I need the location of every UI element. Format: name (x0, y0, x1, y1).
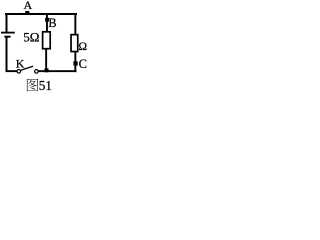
wire right vertical upper (74, 14, 76, 34)
node B dot (45, 18, 49, 22)
battery cell short plate (negative) (4, 36, 10, 38)
switch K right terminal circle (35, 70, 39, 74)
node C dot (73, 61, 77, 65)
svg-text:B: B (48, 16, 56, 30)
switch K left terminal circle (17, 70, 21, 74)
switch K blade (21, 66, 33, 70)
svg-text:A: A (24, 0, 33, 12)
svg-text:Ω: Ω (79, 41, 88, 53)
wire middle vertical lower (45, 49, 47, 70)
svg-text:51: 51 (39, 78, 52, 92)
svg-text:5Ω: 5Ω (23, 29, 39, 44)
resistor box middle (43, 32, 51, 49)
wire middle vertical upper (46, 14, 48, 32)
wire right vertical lower (74, 52, 76, 72)
battery cell long plate (positive) (1, 32, 15, 34)
wire bottom left segment (6, 70, 17, 72)
node A dot (25, 11, 29, 15)
wire left vertical lower (6, 38, 8, 73)
wire bottom right segment (39, 70, 77, 72)
node junction dot bottom middle (45, 68, 49, 72)
caption glyph tu (figure) (27, 79, 39, 92)
wire left vertical upper (6, 13, 8, 32)
resistor box right (71, 35, 78, 52)
svg-text:C: C (79, 57, 87, 71)
svg-text:K: K (16, 56, 25, 70)
wire top horizontal A-line (5, 13, 77, 15)
